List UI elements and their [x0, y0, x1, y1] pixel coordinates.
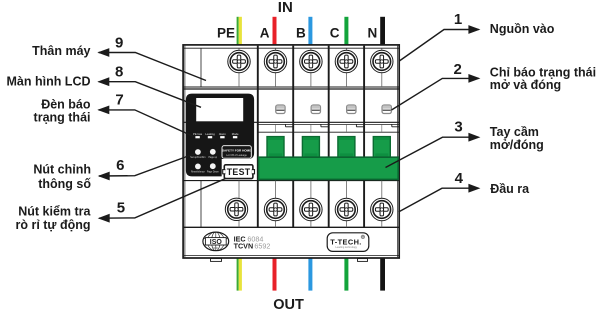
svg-text:9: 9	[115, 35, 123, 52]
svg-text:PE: PE	[217, 26, 235, 41]
svg-text:Nút kiểm tra: Nút kiểm tra	[18, 205, 91, 219]
svg-text:TEST: TEST	[227, 167, 251, 177]
svg-text:Thân máy: Thân máy	[32, 44, 90, 58]
svg-text:5: 5	[117, 200, 125, 217]
svg-text:N: N	[368, 26, 378, 41]
svg-text:rò rỉ tự động: rò rỉ tự động	[15, 218, 90, 232]
svg-text:mở/đóng: mở/đóng	[490, 138, 544, 152]
svg-text:Lot CB of Leakage: Lot CB of Leakage	[226, 154, 247, 157]
svg-text:4: 4	[455, 170, 464, 187]
svg-text:1: 1	[454, 11, 462, 28]
svg-text:2: 2	[454, 61, 462, 78]
svg-text:SAFETY FOR HOME: SAFETY FOR HOME	[222, 149, 251, 153]
svg-text:6: 6	[116, 157, 124, 174]
svg-text:Đầu ra: Đầu ra	[490, 182, 530, 196]
svg-text:TCVN: TCVN	[234, 241, 254, 250]
svg-text:Page up: Page up	[209, 157, 218, 159]
svg-text:9001: 9001	[213, 247, 219, 250]
svg-text:A: A	[260, 26, 270, 41]
svg-text:6592: 6592	[254, 241, 270, 250]
svg-text:mở và đóng: mở và đóng	[490, 78, 561, 92]
svg-text:Alarm: Alarm	[219, 132, 227, 136]
svg-text:IN: IN	[278, 0, 293, 16]
svg-text:OUT: OUT	[273, 297, 304, 312]
svg-text:Leaking: Leaking	[205, 132, 215, 136]
svg-text:Nút chỉnh: Nút chỉnh	[33, 163, 91, 177]
svg-text:3: 3	[454, 119, 462, 136]
svg-text:Leading technology: Leading technology	[335, 246, 357, 249]
svg-text:Màn hình LCD: Màn hình LCD	[6, 74, 90, 88]
svg-text:Page Down: Page Down	[207, 171, 220, 173]
svg-text:C: C	[330, 26, 340, 41]
svg-text:7: 7	[115, 92, 123, 109]
svg-text:Mode: Mode	[232, 132, 239, 136]
svg-text:ISO: ISO	[210, 239, 223, 246]
svg-text:thông số: thông số	[38, 177, 91, 191]
svg-text:B: B	[296, 26, 306, 41]
svg-text:trạng thái: trạng thái	[34, 110, 91, 124]
svg-text:T-TECH.: T-TECH.	[330, 238, 362, 247]
svg-text:Tay cầm: Tay cầm	[490, 125, 539, 139]
svg-text:Nguồn vào: Nguồn vào	[490, 22, 555, 36]
svg-text:PE loss: PE loss	[193, 132, 203, 136]
svg-text:8: 8	[115, 63, 123, 80]
